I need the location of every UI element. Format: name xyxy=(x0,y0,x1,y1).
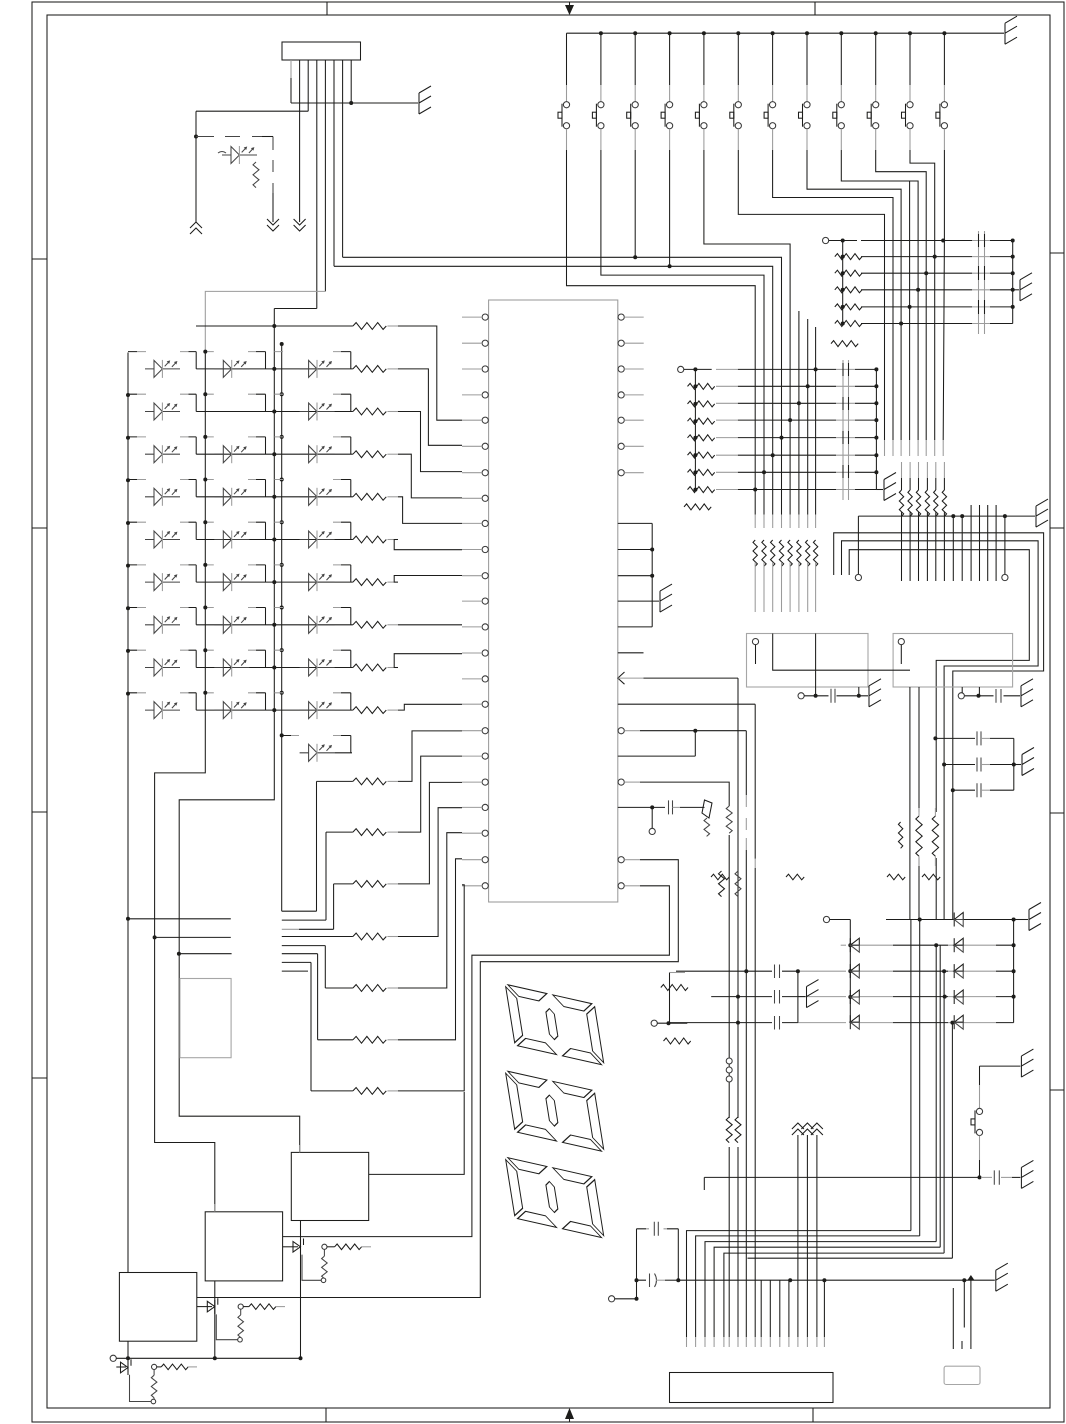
display DS1 xyxy=(505,984,604,1065)
junction xyxy=(349,101,353,105)
in-line resistors on verticals xyxy=(711,808,940,880)
bus C junctions xyxy=(280,392,284,396)
row 1022 xyxy=(669,1022,798,1024)
RN3 resistor row2 xyxy=(835,270,862,276)
input pin xyxy=(823,237,829,243)
base rail junctions xyxy=(126,1356,130,1360)
trimmer symbol xyxy=(702,800,712,836)
crystal loop pins 730/756 xyxy=(618,728,747,756)
right collector bus xyxy=(1014,903,1041,1023)
pin 859 wire to driver box C xyxy=(197,857,679,1298)
wire R6 to pin xyxy=(394,576,462,583)
bundle gray tails xyxy=(687,1337,825,1347)
top supply rail xyxy=(567,32,1005,34)
resistor R13 xyxy=(282,808,462,940)
dashed frame around opto xyxy=(196,137,273,194)
spare resistor xyxy=(898,822,902,848)
comb pins from rail A xyxy=(953,516,962,581)
transistor QB xyxy=(197,1298,285,1342)
top border ticks xyxy=(327,2,815,15)
in-line resistors lower xyxy=(723,1117,744,1147)
cap bus jog + ground xyxy=(798,971,819,1022)
LED D2A xyxy=(145,403,180,421)
grid row 3 xyxy=(861,272,972,274)
resistor RN4c xyxy=(916,490,920,516)
connector block box xyxy=(670,1373,834,1403)
row 7 cell top rail xyxy=(128,607,351,609)
wire C box1 to right drop xyxy=(842,541,1039,920)
row 9 wire xyxy=(196,709,353,711)
RN3 resistor row3 xyxy=(835,287,862,293)
resistor R8 xyxy=(353,664,386,671)
input pin circle xyxy=(110,1355,300,1361)
row 6 cell top rail xyxy=(128,564,351,566)
small curve mark xyxy=(218,152,226,154)
column bus B xyxy=(179,309,300,1153)
grid row 2 xyxy=(716,385,738,387)
grid diagonal junctions xyxy=(941,239,945,243)
box2 inner pin xyxy=(898,639,904,665)
pin5 wire to LED bus A xyxy=(205,291,325,351)
input pin xyxy=(678,366,684,372)
SW11 xyxy=(902,31,947,240)
right bundle lower stubs xyxy=(953,1277,971,1349)
SW12 xyxy=(936,33,948,240)
display DS2 xyxy=(505,1071,604,1152)
spare resistor xyxy=(664,1038,691,1044)
capacitor C12 xyxy=(942,758,1016,772)
capacitor C21 xyxy=(637,1279,647,1281)
resistor RN4d xyxy=(925,490,929,516)
gray module box 1 xyxy=(747,634,869,688)
staircase from right bundle to bottom bundle xyxy=(687,1231,911,1337)
right collector bus xyxy=(1012,241,1014,324)
RN2 resistor row7 xyxy=(688,487,715,493)
resistor RN4a xyxy=(899,490,903,516)
LED D7A xyxy=(145,616,180,634)
rail ground xyxy=(1005,16,1017,44)
RN3 resistor row1 xyxy=(835,254,862,260)
row 5 cell top rail xyxy=(128,521,351,523)
resistor R2 xyxy=(353,408,386,415)
stub pin 652.8 xyxy=(618,652,644,654)
mini column wire xyxy=(669,973,671,1024)
row 4 cell top rail xyxy=(128,479,351,481)
rail y1177 xyxy=(704,1160,1033,1190)
resistor R0 xyxy=(353,323,386,330)
opto LED D30 xyxy=(222,146,257,164)
left rail y953.7 xyxy=(177,952,232,956)
transistor QC xyxy=(116,1359,197,1403)
resistor R4 xyxy=(353,493,386,500)
SW6 xyxy=(730,31,885,240)
LED D9B xyxy=(214,701,249,719)
descending bundle members from rail xyxy=(761,1280,824,1337)
fan stub lines xyxy=(282,911,334,971)
right collector bus xyxy=(875,369,877,489)
grid row 6 xyxy=(716,454,738,456)
LED D7C xyxy=(300,616,335,634)
LED D1C xyxy=(300,360,335,378)
grid verticals lower tails xyxy=(755,369,815,514)
wire R0 to pin xyxy=(398,326,462,420)
LED D2C xyxy=(300,403,335,421)
SW3 xyxy=(627,31,672,259)
cap plates on rows xyxy=(772,965,782,1030)
LED D10C xyxy=(300,744,335,762)
grid row 5 xyxy=(861,306,972,308)
diode column 2 xyxy=(954,913,963,1030)
row 4 brackets xyxy=(196,480,351,497)
resistor R5 xyxy=(353,536,386,543)
LED D6B xyxy=(214,573,249,591)
comb pin stubs resistor lines xyxy=(899,462,946,581)
grid row 1 xyxy=(716,368,738,370)
diode D29 xyxy=(954,1015,963,1029)
row 4 wire xyxy=(196,496,353,498)
right side loop wires xyxy=(197,523,755,1297)
row 5 brackets xyxy=(196,522,351,539)
wire R3 to pin xyxy=(398,454,462,498)
row 5 wire xyxy=(196,539,353,541)
clamp rows xyxy=(669,943,1016,1024)
capacitor bank plates xyxy=(843,360,849,500)
pin 807 cap branch xyxy=(618,800,705,834)
row 9 brackets xyxy=(196,693,351,710)
grid row 4 xyxy=(716,419,738,421)
ground xyxy=(1022,748,1034,776)
RN2 resistor row4 xyxy=(688,435,715,441)
wire R5 to pin xyxy=(394,540,462,550)
mini resistor column input pin xyxy=(651,1020,687,1026)
row 8 wire xyxy=(196,667,353,669)
LED D4B xyxy=(214,488,249,506)
left border zone ticks xyxy=(32,259,47,1078)
left pins xyxy=(462,314,488,889)
bus junctions xyxy=(1011,239,1015,243)
ground stub xyxy=(876,489,883,491)
wire B box1 to right drop xyxy=(834,533,1044,920)
wire R2 to pin xyxy=(398,412,462,472)
LED row series resistors + routing to U1 xyxy=(353,366,462,714)
LED D5C xyxy=(300,531,335,549)
grid row 6 xyxy=(861,323,972,325)
rail A y516 xyxy=(858,499,1048,527)
RN2 resistor row6 xyxy=(688,469,715,475)
off-page arrow down xyxy=(267,219,279,231)
ground at rail A end xyxy=(1036,499,1048,527)
row 10 cell top rail xyxy=(282,735,351,737)
LED D7B xyxy=(214,616,249,634)
transistor QA xyxy=(283,1239,371,1283)
ground xyxy=(869,679,881,707)
cap block C20 xyxy=(609,1222,681,1302)
gray box xyxy=(180,979,231,1058)
row 996 xyxy=(711,996,798,998)
LED D3B xyxy=(214,445,249,463)
LED D4C xyxy=(300,488,335,506)
bottom border ticks xyxy=(326,1408,813,1422)
right border zone ticks xyxy=(1050,253,1064,1090)
resistor R11 xyxy=(326,756,462,920)
resistor R10 xyxy=(317,731,463,911)
diode column 1 xyxy=(848,920,859,1030)
resistor RN4f xyxy=(942,490,946,516)
bundle verticals from box1 xyxy=(729,678,755,1337)
box verticals down xyxy=(910,687,919,920)
LED D8B xyxy=(214,659,249,677)
ground xyxy=(419,86,431,114)
RN2 resistor row3 xyxy=(688,418,715,424)
grid row 7 xyxy=(716,471,738,473)
grid row 1 xyxy=(861,240,972,242)
wire connector pin6 across to grid xyxy=(334,266,773,369)
LED D5B xyxy=(214,531,249,549)
display DS3 xyxy=(505,1157,604,1238)
resistor R30 vertical xyxy=(253,162,259,188)
LED D9A xyxy=(145,701,180,719)
SW5 xyxy=(695,31,790,369)
right pins top xyxy=(618,314,644,476)
left bus xyxy=(127,353,129,714)
row 2 cell top rail xyxy=(128,393,351,395)
resistor R15 xyxy=(318,859,462,1043)
capacitor C10 xyxy=(829,689,837,704)
grid row 5 xyxy=(716,437,738,439)
clamp row y919 xyxy=(823,916,1015,922)
bus junctions xyxy=(874,367,878,371)
capacitor C11 xyxy=(933,731,1013,745)
long wire pin 704 xyxy=(618,703,755,705)
resistor R1 xyxy=(353,366,386,373)
ground xyxy=(1021,679,1033,707)
LED D6C xyxy=(300,573,335,591)
small spare resistors xyxy=(887,874,905,880)
row 6 brackets xyxy=(196,565,351,582)
gnd stub pin 601 xyxy=(618,600,659,602)
LED D1B xyxy=(214,360,249,378)
wire R4 to pin xyxy=(398,497,462,524)
diode D23 xyxy=(850,990,859,1004)
box1 bottom rail xyxy=(798,679,881,707)
grid row 8 xyxy=(716,489,738,491)
ground xyxy=(884,473,896,501)
wire R1 to pin xyxy=(398,369,462,445)
top center alignment arrow xyxy=(565,2,574,15)
grid row 3 xyxy=(716,402,738,404)
row 1 cell top rail xyxy=(128,351,351,353)
in-line resistor on 729 xyxy=(723,806,735,835)
SW1 xyxy=(558,31,755,369)
connector J1 body xyxy=(282,42,361,60)
resistor R7 xyxy=(353,621,386,628)
LED D6A xyxy=(145,573,180,591)
resistor xyxy=(932,816,938,856)
grid row 2 xyxy=(861,256,972,258)
wire R8 to pin xyxy=(394,654,462,668)
unconnected vertical tops xyxy=(799,311,816,369)
grid diagonal junctions xyxy=(814,367,818,371)
LED D3A xyxy=(145,445,180,463)
diode D27 xyxy=(954,964,963,978)
comb pin with connector circle xyxy=(1002,516,1008,581)
LED D3C xyxy=(300,445,335,463)
spare resistor xyxy=(831,341,858,347)
box verticals to rail xyxy=(128,1221,301,1373)
resistor R16 xyxy=(311,885,464,1095)
network bus xyxy=(842,241,844,324)
box A output wire xyxy=(369,1092,465,1174)
diode D28 xyxy=(954,990,963,1004)
row 8 brackets xyxy=(196,650,351,667)
junction xyxy=(194,135,198,139)
row 1 wire xyxy=(196,368,353,370)
row 3 brackets xyxy=(196,437,351,454)
grid vertical tails below xyxy=(885,181,945,440)
row 7 wire xyxy=(196,624,353,626)
loop wire pins 523-575 xyxy=(618,523,652,627)
RN2 resistor row5 xyxy=(688,452,715,458)
RN3 resistor row4 xyxy=(835,304,862,310)
LED D8C xyxy=(300,659,335,677)
LED D5A xyxy=(145,531,180,549)
SW9 xyxy=(833,31,918,240)
LED D1A xyxy=(145,360,180,378)
driver box A xyxy=(291,1152,368,1220)
LED D8A xyxy=(145,659,180,677)
row 7 brackets xyxy=(196,608,351,625)
button columns xyxy=(558,31,948,369)
column bus A xyxy=(155,351,215,1212)
capacitor bank plates xyxy=(979,231,985,334)
comb pin stub A xyxy=(855,516,861,581)
box B feed tail xyxy=(214,1204,216,1212)
button SW13 xyxy=(971,1049,1033,1177)
off-page arrow up xyxy=(190,222,202,234)
resistor R12 xyxy=(334,782,462,929)
resistor xyxy=(916,816,922,856)
wire pin 782 to bus xyxy=(618,779,729,806)
wire pin1 to gnd rail xyxy=(291,102,418,104)
box1 inner pin xyxy=(752,639,758,665)
inductor beads on 729 xyxy=(726,1058,732,1082)
left bus down to box C xyxy=(127,713,129,1273)
resistor R3 xyxy=(353,451,386,458)
SW10 xyxy=(867,31,926,240)
RN3 resistor row5 xyxy=(835,321,862,327)
column bus C xyxy=(281,344,283,911)
resistor RN4b xyxy=(908,490,912,516)
bus B junctions xyxy=(272,367,276,371)
vertical gray tails below resistors xyxy=(755,562,815,612)
diode D26 xyxy=(954,938,963,952)
lower dashed stub + arrow down xyxy=(272,193,274,222)
SW7 xyxy=(764,31,893,240)
row 2 brackets xyxy=(196,394,351,411)
in-line resistors mid xyxy=(719,871,742,897)
diode D22 xyxy=(850,964,859,978)
box1 internal wires xyxy=(773,634,910,671)
network bus xyxy=(694,369,696,489)
driver box C xyxy=(119,1273,196,1342)
left bus junctions xyxy=(126,393,130,696)
bottom center alignment arrow xyxy=(565,1408,574,1422)
off-page arrows up xyxy=(792,1123,823,1337)
RN2 resistor row1 xyxy=(688,383,715,389)
RN2 resistor row2 xyxy=(688,401,715,407)
LED D4A xyxy=(145,488,180,506)
resistor xyxy=(661,985,688,991)
left rail y918.8 xyxy=(126,917,231,921)
box A feed tail xyxy=(299,1145,301,1152)
ground stub xyxy=(1013,289,1019,291)
pin4 wire to LED bus B xyxy=(274,308,317,310)
diode D25 xyxy=(954,913,963,927)
comb pins floating xyxy=(971,505,996,581)
series resistors on verticals xyxy=(753,540,818,566)
box2 bottom rail xyxy=(958,679,1033,707)
capacitor C13 xyxy=(951,783,1014,797)
rail y1280 xyxy=(678,1263,1008,1327)
row 3 wire xyxy=(196,453,353,455)
left rail y937.4 xyxy=(153,935,231,939)
top bracket row1 xyxy=(196,325,353,327)
diode D24 xyxy=(850,1015,859,1029)
spare resistor xyxy=(684,504,711,510)
row 9 cell top rail xyxy=(128,692,351,694)
SW4 xyxy=(661,31,706,268)
gray module box 2 xyxy=(893,634,1013,688)
row 1 brackets xyxy=(196,352,351,369)
J1 pin wires xyxy=(290,60,292,78)
wire pin2 left xyxy=(196,111,308,222)
SW8 xyxy=(799,31,902,240)
row 6 wire xyxy=(196,581,353,583)
enable arrow pin 678 xyxy=(618,672,625,684)
SW2 xyxy=(592,31,764,369)
row 8 cell top rail xyxy=(128,649,351,651)
off-page arrow down2 xyxy=(294,219,306,231)
right bundle verticals down xyxy=(911,920,953,1259)
driver box B xyxy=(205,1212,282,1281)
resistor R9 xyxy=(353,707,386,714)
resistor R6 xyxy=(353,579,386,586)
row 971 xyxy=(676,970,798,972)
ground xyxy=(1020,273,1032,301)
grid row 4 xyxy=(861,289,972,291)
wire R7 to pin xyxy=(398,624,462,626)
LED D9C xyxy=(300,701,335,719)
wire R9 to pin xyxy=(398,704,462,710)
resistor R14 xyxy=(325,833,462,992)
row 3 cell top rail xyxy=(128,436,351,438)
wire D box1 to right drop xyxy=(849,550,1029,920)
LED matrix cells xyxy=(128,350,353,762)
row 945 xyxy=(841,944,846,946)
row 10 brackets xyxy=(350,736,352,753)
row 2 wire xyxy=(196,411,353,413)
wire connector pin7 across to grid xyxy=(343,257,782,369)
decoupling caps stack xyxy=(933,731,1034,797)
resistor RN4e xyxy=(934,490,938,516)
diode D21 xyxy=(850,938,859,952)
small gray box xyxy=(944,1366,980,1384)
pin 885 wire to driver box B xyxy=(283,883,670,1237)
